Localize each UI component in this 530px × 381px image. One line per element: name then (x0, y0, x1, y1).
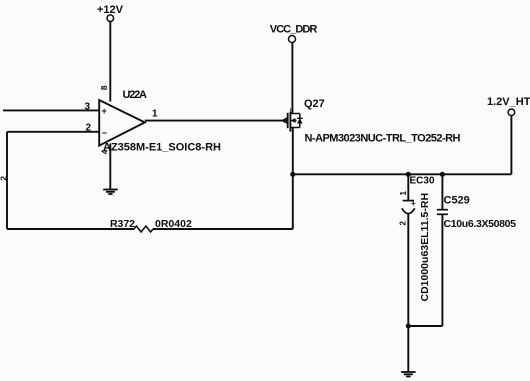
capacitor EC30 (polarized) plates (402, 201, 415, 214)
svg-text:D: D (290, 109, 294, 115)
svg-text:2: 2 (0, 176, 9, 181)
junction node C529 tap (440, 172, 445, 177)
junction node at Q27 drain rail (290, 172, 295, 177)
svg-text:+: + (102, 106, 107, 116)
wire rail to EC30 top plate (407, 174, 409, 200)
wire input pin 2 (7, 131, 99, 133)
svg-text:R372: R372 (110, 218, 135, 230)
junction node bottom (406, 324, 411, 329)
transistor Q27 (P-MOSFET) (288, 112, 303, 129)
power 1.2V_HT terminal (487, 96, 530, 116)
svg-text:AZ358M-E1_SOIC8-RH: AZ358M-E1_SOIC8-RH (103, 142, 221, 154)
wire +12V to op-amp pin 8 (109, 22, 111, 102)
svg-text:C10u6.3X50805: C10u6.3X50805 (444, 218, 517, 230)
svg-text:4: 4 (100, 149, 110, 154)
wire 1.2V_HT down to rail (510, 116, 512, 175)
svg-text:1.2V_HT: 1.2V_HT (487, 96, 530, 108)
wire bottom to ground (407, 326, 409, 372)
wire bottom connecting EC30 and C529 (408, 325, 442, 327)
wire C529 bottom plate down (441, 214, 443, 326)
wire EC30 bottom plate down (407, 214, 409, 326)
op-amp U22A triangle (99, 100, 145, 146)
svg-text:8: 8 (99, 85, 109, 90)
svg-text:VCC_DDR: VCC_DDR (270, 24, 318, 36)
svg-text:2: 2 (399, 220, 408, 225)
wire VCC_DDR to Q27 source (291, 43, 293, 114)
ground (capacitors) (401, 372, 416, 377)
capacitor C529 plates (437, 210, 448, 215)
svg-text:−: − (102, 128, 107, 138)
wire Q27 drain down to feedback (292, 128, 294, 230)
power +12V terminal (97, 4, 124, 22)
junction node EC30 tap (406, 172, 411, 177)
wire feedback bottom left segment (7, 228, 134, 230)
Q27 bottom pin mark (289, 129, 291, 131)
svg-text:Q27: Q27 (304, 98, 325, 110)
svg-text:N-APM3023NUC-TRL_TO252-RH: N-APM3023NUC-TRL_TO252-RH (305, 133, 461, 145)
wire rail to C529 top plate (441, 174, 443, 209)
wire feedback bottom right segment (153, 228, 293, 230)
ground (op-amp) (103, 190, 118, 195)
wire op-amp pin 4 to ground (109, 144, 111, 190)
wire output rail horizontal (293, 173, 512, 175)
svg-text:CD1000u63EL11.5-RH: CD1000u63EL11.5-RH (419, 193, 431, 302)
Q27 gate arrow (282, 118, 287, 123)
svg-text:U22A: U22A (123, 89, 148, 101)
power VCC_DDR terminal (270, 24, 318, 43)
svg-text:C529: C529 (444, 195, 470, 207)
wire input pin 3 (3, 109, 99, 111)
wire op-amp output to Q27 gate (145, 120, 286, 122)
resistor R372 (134, 226, 153, 232)
svg-text:EC30: EC30 (410, 176, 435, 187)
svg-text:1: 1 (399, 190, 408, 195)
wire feedback left vertical (6, 132, 8, 229)
svg-text:1: 1 (152, 109, 158, 120)
